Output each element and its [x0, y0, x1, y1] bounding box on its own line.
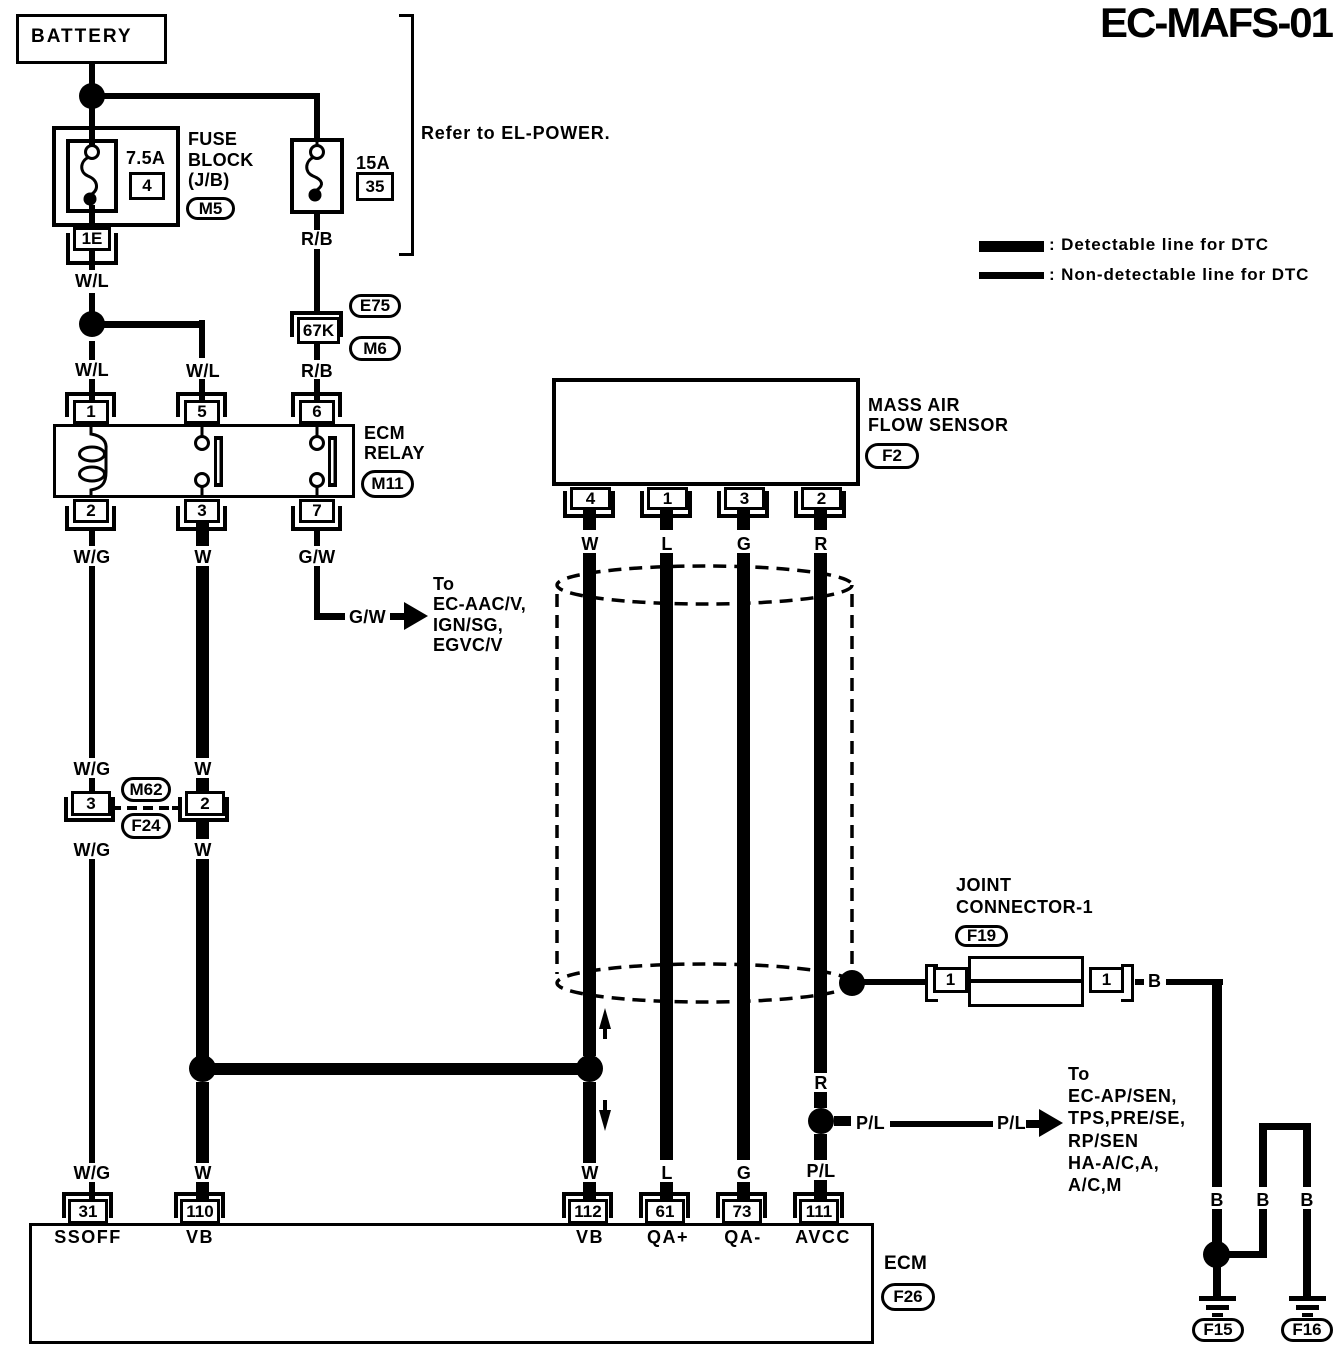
fuse block label	[188, 129, 254, 191]
ECM pin 73 label QA-	[724, 1228, 762, 1246]
arrow to EC-AAC/V tail	[390, 613, 406, 620]
ECM pin 61 box	[645, 1199, 685, 1224]
wire label R/B	[301, 230, 333, 248]
joint connector left bracket	[925, 964, 938, 1002]
connector 67K bracket	[290, 311, 343, 337]
wire label B at joint connector	[1148, 972, 1161, 990]
wire B right upper	[1303, 1123, 1311, 1187]
wire label W	[194, 548, 211, 566]
connector F19 oval	[955, 925, 1008, 947]
wire fuse to 1E	[89, 205, 95, 229]
wire into fuse	[89, 126, 95, 148]
fuse number box 4	[129, 172, 165, 200]
joint connector body	[968, 956, 1084, 1007]
wire W/G into pin 31	[89, 1182, 95, 1200]
branch wire down to pin5	[199, 320, 205, 358]
wire label R	[814, 535, 827, 553]
legend detectable text	[1049, 236, 1269, 254]
wire label B middle	[1256, 1191, 1269, 1209]
wire R from MAFS	[814, 553, 827, 1073]
wire label W below connector	[194, 841, 211, 859]
connector 1E bracket	[66, 233, 118, 265]
fuse 15A symbol	[316, 140, 319, 147]
wire W stub below connector 2	[196, 819, 209, 839]
connector F16 oval	[1281, 1318, 1333, 1342]
wire W below splice	[583, 1082, 596, 1163]
wire B to splice	[1212, 1209, 1222, 1243]
joint connector pin 1 left box	[933, 967, 968, 993]
wire G/W down	[314, 566, 320, 620]
wire W/L to relay pin5	[199, 379, 205, 401]
ECM pin 31 label SSOFF	[54, 1228, 122, 1246]
joint connector pin 1 right box	[1089, 967, 1124, 993]
MAFS pin 1 bracket	[640, 491, 692, 518]
connector 1E box	[73, 227, 111, 251]
wire W/G to ECM	[89, 859, 95, 1163]
MAFS pin 2 bracket	[794, 491, 846, 518]
wire 15A fuse down	[314, 214, 320, 230]
joint connector output stub	[1135, 979, 1144, 985]
connector pin 2 bracket	[178, 797, 229, 822]
ECM label	[884, 1255, 927, 1273]
wire stub below splice	[814, 1134, 827, 1160]
splice dashes between connectors	[127, 806, 137, 810]
to EC-AAC/V text	[433, 574, 526, 655]
wire W into pin 112	[583, 1182, 596, 1200]
connector pin 3 bracket	[64, 797, 115, 822]
wire B middle upper	[1259, 1123, 1267, 1187]
arrow to EC-AP/SEN tail	[1026, 1120, 1041, 1128]
wire stub pin4	[583, 510, 596, 530]
joint connector right bracket	[1121, 964, 1134, 1002]
relay M11 oval	[361, 470, 414, 498]
wire W down to splice	[196, 859, 209, 1057]
branch wire splice to pin5 horizontal	[92, 321, 205, 328]
battery	[16, 14, 167, 64]
wire W into pin 110	[196, 1182, 209, 1200]
wire stub pin1	[660, 510, 673, 530]
wire W from MAFS	[583, 553, 596, 1056]
wire label G/W at arrow	[349, 608, 386, 626]
wire label W/G	[74, 548, 111, 566]
MAFS pin 3 box	[724, 487, 765, 510]
wire label B left	[1210, 1191, 1223, 1209]
wire stub pin2	[814, 510, 827, 530]
wire P/L into pin 111	[814, 1180, 827, 1200]
relay switch 1	[201, 424, 204, 437]
splice W column	[576, 1055, 603, 1082]
wire battery to splice	[89, 61, 95, 126]
wire W below splice	[196, 1082, 209, 1163]
wire label G/W	[299, 548, 336, 566]
wire 67K down	[314, 344, 320, 360]
relay pin 1 box	[73, 400, 109, 424]
connector F15 oval	[1192, 1318, 1244, 1342]
fuse 7.5A inner box	[66, 139, 118, 213]
wire W/G long	[89, 566, 95, 758]
wire L from MAFS	[660, 553, 673, 1160]
connector F26 oval	[881, 1283, 935, 1311]
MAFS pin 1 box	[647, 487, 688, 510]
arrow up beside W wire	[599, 1008, 611, 1029]
connector M5 oval	[186, 197, 235, 220]
wire pin2 stub	[89, 531, 95, 546]
wire G from MAFS	[737, 553, 750, 1160]
wire label W	[581, 535, 598, 553]
fuse value 15A	[356, 154, 390, 172]
ECM body	[29, 1223, 874, 1344]
wire stub pin3	[737, 510, 750, 530]
MAFS body	[552, 378, 860, 486]
wire B horizontal	[1166, 979, 1223, 985]
wire label W/G above ECM	[74, 1164, 111, 1182]
wire W into connector 2	[196, 778, 209, 791]
wire W/G into connector 3	[89, 778, 95, 791]
splice on W/L	[79, 311, 105, 337]
ECM pin 111 bracket	[793, 1192, 844, 1218]
wire label W above pin112	[581, 1164, 598, 1182]
splice below battery	[79, 83, 105, 109]
title EC-MAFS-01	[1100, 2, 1332, 44]
ECM pin 110 bracket	[174, 1192, 225, 1218]
ECM pin 112 label VB	[576, 1228, 604, 1246]
fuse value 7.5A	[126, 149, 165, 167]
legend detectable line sample	[979, 241, 1044, 252]
wire W long	[196, 566, 209, 758]
wire pin3 stub thick W	[196, 523, 209, 546]
ground F16	[1289, 1296, 1326, 1301]
splice on shield	[839, 970, 865, 996]
wire label to splice	[89, 293, 95, 313]
wire label W above connector	[194, 760, 211, 778]
wire label W/L pin1	[75, 361, 109, 379]
wire B splice to ground	[1213, 1267, 1221, 1296]
relay pin 3 bracket	[176, 506, 227, 531]
wire label P/L above pin111	[807, 1162, 836, 1180]
wire B splice horizontal link	[1229, 1251, 1263, 1258]
legend non-detectable line sample	[979, 272, 1044, 279]
wire L into pin 61	[660, 1182, 673, 1200]
arrow to EC-AAC/V head	[404, 602, 428, 630]
wire B vertical down	[1212, 979, 1222, 1187]
wire splice to pin1 label	[89, 341, 95, 360]
splice on R/PL	[808, 1108, 834, 1134]
wire label G above pin73	[737, 1164, 751, 1182]
ECM pin 110 box	[180, 1199, 220, 1224]
wire label R above splice	[814, 1074, 827, 1092]
ECM pin 31 bracket	[62, 1192, 113, 1218]
fuse number box 35	[356, 172, 394, 201]
ECM pin 61 bracket	[639, 1192, 690, 1218]
ECM pin 110 label VB	[186, 1228, 214, 1246]
MAFS pin 4 bracket	[563, 491, 615, 518]
wire P/L link	[890, 1121, 993, 1127]
wire R stub to splice	[814, 1092, 827, 1108]
to EC-AP/SEN text	[1068, 1063, 1186, 1196]
connector pin 2 box	[185, 791, 225, 816]
wire label L above pin61	[661, 1164, 672, 1182]
wire R/B to relay pin6	[314, 379, 320, 401]
relay pin 5 box	[184, 400, 220, 424]
relay pin 1 bracket	[65, 392, 116, 417]
relay pin 6 bracket	[291, 392, 342, 417]
relay pin 7 box	[299, 499, 335, 523]
wire label W/L	[75, 272, 109, 290]
ECM pin 73 box	[722, 1199, 762, 1224]
wire label G	[737, 535, 751, 553]
connector 67K box	[297, 317, 340, 344]
ECM pin 111 label AVCC	[795, 1228, 851, 1246]
relay pin 6 box	[299, 400, 335, 424]
wire pin7 stub	[314, 531, 320, 546]
MAFS label	[868, 395, 1009, 436]
connector M6 oval	[349, 336, 401, 361]
wire shield to joint connector	[852, 979, 925, 985]
ECM pin 31 box	[68, 1199, 108, 1224]
arrow to EC-AP/SEN head	[1039, 1109, 1063, 1137]
wire label B right	[1300, 1191, 1313, 1209]
fuse block J/B outer box	[52, 126, 180, 227]
relay pin 5 bracket	[176, 392, 227, 417]
wire B middle lower	[1259, 1209, 1267, 1258]
wire B right lower	[1303, 1209, 1311, 1296]
wire label P/L at arrow	[997, 1114, 1026, 1132]
relay label ECM RELAY	[364, 423, 425, 463]
wire label W/G below connector	[74, 841, 111, 859]
ground F15	[1199, 1296, 1236, 1301]
relay pin 7 bracket	[291, 506, 342, 531]
connector F24 oval	[121, 813, 171, 839]
ECM pin 111 box	[799, 1199, 839, 1224]
joint connector label	[956, 874, 1093, 918]
relay pin 2 box	[73, 499, 109, 523]
connector tick right of 3	[113, 806, 121, 810]
connector E75 oval	[349, 294, 401, 318]
arrow down beside W wire	[603, 1100, 607, 1110]
wire G into pin 73	[737, 1182, 750, 1200]
MAFS pin 2 box	[801, 487, 842, 510]
wire W/L to relay pin1	[89, 379, 95, 401]
ECM pin 112 bracket	[562, 1192, 613, 1218]
relay pin 3 box	[184, 499, 220, 523]
wire G/W elbow horizontal	[314, 613, 345, 620]
connector pin 3 box	[71, 791, 111, 816]
ECM pin 73 bracket	[716, 1192, 767, 1218]
wire splice stub right	[834, 1116, 851, 1126]
wire splice to 15A fuse horizontal	[92, 93, 320, 99]
wire label W/G above connector	[74, 760, 111, 778]
fuse 15A box	[290, 138, 344, 214]
relay switch 2	[316, 424, 319, 437]
wire 1E to label	[89, 251, 95, 270]
connector tick left of 2	[172, 806, 180, 810]
ECM pin 112 box	[568, 1199, 608, 1224]
wire B bridge top	[1259, 1123, 1311, 1130]
relay M11 body	[53, 424, 355, 498]
wire label R/B above pin6	[301, 362, 333, 380]
connector M62 oval	[121, 777, 171, 802]
wire W splice horizontal link	[202, 1063, 589, 1075]
MAFS pin 4 box	[570, 487, 611, 510]
legend non-detectable text	[1049, 266, 1309, 284]
ECM pin 61 label QA+	[647, 1228, 689, 1246]
MAFS pin 3 bracket	[717, 491, 769, 518]
relay pin 2 bracket	[65, 506, 116, 531]
refer to EL-POWER text	[421, 124, 610, 142]
wire down to 15A fuse	[314, 96, 320, 138]
joint connector body center line	[971, 979, 1081, 983]
wire label L	[661, 535, 672, 553]
connector F2 oval	[865, 443, 919, 469]
wire R/B to 67K	[314, 249, 320, 312]
splice on W at ECM feed	[189, 1055, 216, 1082]
wire label P/L right of splice	[856, 1114, 885, 1132]
wire label W/L pin5	[186, 362, 220, 380]
splice on B	[1203, 1241, 1230, 1268]
wire label W above ECM pin110	[194, 1164, 211, 1182]
refer to EL-POWER bracket	[399, 14, 414, 256]
